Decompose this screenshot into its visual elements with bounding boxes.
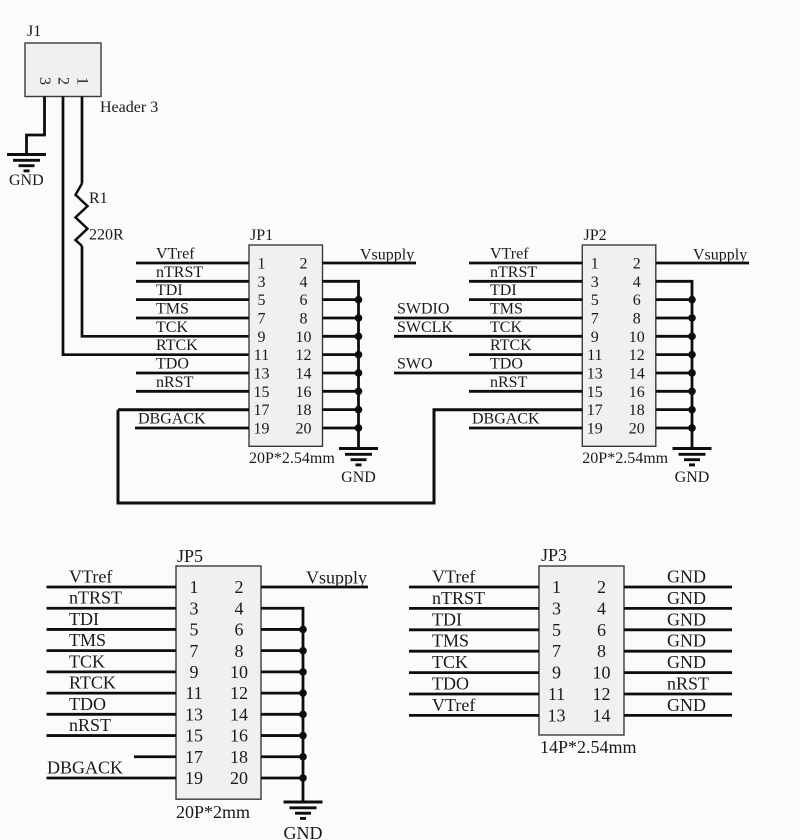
ground bus of JP1 <box>339 449 378 465</box>
svg-text:1: 1 <box>190 577 199 597</box>
svg-text:Header 3: Header 3 <box>100 99 158 116</box>
svg-text:19: 19 <box>587 420 603 437</box>
wire VTref to JP1 pin 1 <box>136 262 249 265</box>
svg-text:15: 15 <box>587 384 603 401</box>
svg-text:RTCK: RTCK <box>156 337 198 354</box>
wire JP1 pin 8 to ground bus <box>323 317 359 320</box>
wire JP5 pin 6 to ground bus <box>261 628 303 631</box>
pin numbers of JP1 <box>254 255 312 437</box>
svg-text:Vsupply: Vsupply <box>306 568 367 588</box>
wire RTCK to JP2 pin 11 <box>469 353 582 356</box>
junction at JP2 pin 12 bus <box>688 351 696 359</box>
junction at JP1 pin 14 bus <box>355 369 363 377</box>
svg-text:JP1: JP1 <box>250 227 273 244</box>
svg-text:J1: J1 <box>27 23 41 40</box>
svg-text:14: 14 <box>629 365 645 382</box>
wire pin 17 to JP5 pin 17 <box>134 755 176 758</box>
svg-text:TDO: TDO <box>432 674 469 694</box>
wire JP3 pin 12 to nRST <box>624 693 732 696</box>
pin numbers of JP5 <box>185 577 248 788</box>
connector JP2 <box>582 245 656 446</box>
svg-text:3: 3 <box>36 77 53 85</box>
svg-text:11: 11 <box>185 683 202 703</box>
svg-text:220R: 220R <box>89 227 124 244</box>
svg-text:nRST: nRST <box>490 374 528 391</box>
svg-text:4: 4 <box>235 598 244 618</box>
resistor R1 <box>76 184 88 247</box>
svg-text:13: 13 <box>254 365 270 382</box>
svg-text:5: 5 <box>552 620 561 640</box>
wire JP2 pin 6 to ground bus <box>656 298 692 301</box>
svg-text:3: 3 <box>552 598 561 618</box>
svg-text:5: 5 <box>258 292 266 309</box>
svg-text:10: 10 <box>629 329 645 346</box>
svg-text:5: 5 <box>190 620 199 640</box>
wire JP5 pin 16 to ground bus <box>261 734 303 737</box>
svg-text:17: 17 <box>254 402 270 419</box>
svg-text:6: 6 <box>235 620 244 640</box>
wire JP3 pin 6 to GND <box>624 628 732 631</box>
wire nRST to JP1 pin 15 <box>136 390 249 393</box>
svg-text:8: 8 <box>235 641 244 661</box>
wire nRST to JP2 pin 15 <box>469 390 582 393</box>
wire JP2 pin 14 to ground bus <box>656 372 692 375</box>
wire JP1 pin 17 stub <box>118 408 249 411</box>
junction at JP2 pin 10 bus <box>688 333 696 341</box>
wire JP5 pin 8 to ground bus <box>261 649 303 652</box>
svg-text:4: 4 <box>300 274 308 291</box>
junction at JP5 pin 12 bus <box>299 689 307 697</box>
junction at JP1 pin 18 bus <box>355 406 363 414</box>
wire TMS to JP3 pin 7 <box>409 650 539 653</box>
svg-text:1: 1 <box>552 577 561 597</box>
svg-text:SWDIO: SWDIO <box>397 301 449 318</box>
wire JP5 pin 4 to ground bus <box>261 608 303 801</box>
wire TCK to JP2 pin 9 <box>394 335 582 338</box>
wire VTref to JP2 pin 1 <box>469 262 582 265</box>
wire Vsupply from JP2 pin 2 <box>656 262 749 265</box>
svg-text:7: 7 <box>552 641 561 661</box>
svg-text:19: 19 <box>185 768 203 788</box>
pin numbers of JP3 <box>548 577 611 725</box>
svg-text:7: 7 <box>258 310 266 327</box>
svg-text:VTref: VTref <box>432 695 475 715</box>
wire TDO to JP3 pin 11 <box>409 693 539 696</box>
wire JP2 pin 16 to ground bus <box>656 390 692 393</box>
junction at JP2 pin 18 bus <box>688 406 696 414</box>
wire TMS to JP2 pin 7 <box>394 317 582 320</box>
wire JP3 pin 10 to GND <box>624 671 732 674</box>
wire JP5 pin 18 to ground bus <box>261 755 303 758</box>
svg-text:TDI: TDI <box>490 282 517 299</box>
svg-text:2: 2 <box>300 255 308 272</box>
wire JP2 pin 12 to ground bus <box>656 353 692 356</box>
svg-text:13: 13 <box>548 705 566 725</box>
svg-text:8: 8 <box>597 641 606 661</box>
svg-text:TMS: TMS <box>432 631 469 651</box>
wire JP1 pin 14 to ground bus <box>323 372 359 375</box>
svg-text:GND: GND <box>667 588 706 608</box>
svg-text:2: 2 <box>633 255 641 272</box>
wire TCK to JP5 pin 9 <box>47 670 177 673</box>
wire TMS to JP5 pin 7 <box>47 649 177 652</box>
connector JP5 <box>176 566 261 799</box>
svg-text:TDO: TDO <box>490 355 523 372</box>
ground below J1 pin 3 <box>7 155 46 171</box>
svg-text:3: 3 <box>258 274 266 291</box>
wire JP1 pin 20 to ground bus <box>323 427 359 430</box>
wire JP5 pin 20 to ground bus <box>261 777 303 780</box>
svg-text:DBGACK: DBGACK <box>138 410 206 427</box>
svg-text:nRST: nRST <box>69 715 111 735</box>
connector J1 (Header 3) <box>25 43 101 97</box>
svg-text:VTref: VTref <box>432 567 475 587</box>
svg-text:13: 13 <box>587 365 603 382</box>
svg-text:18: 18 <box>296 402 312 419</box>
svg-text:VTref: VTref <box>490 246 529 263</box>
wire R1 to JP1 TCK (pin 9) <box>82 246 249 336</box>
junction at JP1 pin 10 bus <box>355 333 363 341</box>
svg-text:18: 18 <box>629 402 645 419</box>
svg-text:1: 1 <box>74 77 91 85</box>
svg-text:9: 9 <box>591 329 599 346</box>
svg-text:4: 4 <box>597 598 606 618</box>
svg-text:14P*2.54mm: 14P*2.54mm <box>540 737 637 757</box>
svg-text:R1: R1 <box>89 190 108 207</box>
junction at JP2 pin 6 bus <box>688 296 696 304</box>
svg-text:17: 17 <box>185 747 203 767</box>
svg-text:8: 8 <box>300 310 308 327</box>
svg-text:2: 2 <box>55 77 72 85</box>
svg-text:20: 20 <box>230 768 248 788</box>
junction at JP5 pin 16 bus <box>299 732 307 740</box>
svg-text:DBGACK: DBGACK <box>47 757 123 777</box>
svg-text:12: 12 <box>296 347 312 364</box>
wire TDO to JP5 pin 13 <box>47 713 177 716</box>
wire nTRST to JP3 pin 3 <box>409 607 539 610</box>
svg-text:12: 12 <box>629 347 645 364</box>
wire nTRST to JP5 pin 3 <box>47 607 177 610</box>
svg-text:GND: GND <box>675 469 710 486</box>
junction at JP5 pin 14 bus <box>299 711 307 719</box>
svg-text:JP2: JP2 <box>584 227 607 244</box>
wire TCK to JP3 pin 9 <box>409 671 539 674</box>
svg-text:GND: GND <box>9 172 44 189</box>
wire TDI to JP2 pin 5 <box>469 298 582 301</box>
connector JP3 <box>539 566 624 735</box>
svg-text:VTref: VTref <box>156 246 195 263</box>
svg-text:1: 1 <box>258 255 266 272</box>
junction at JP1 pin 6 bus <box>355 296 363 304</box>
svg-text:3: 3 <box>591 274 599 291</box>
junction at JP2 pin 16 bus <box>688 388 696 396</box>
svg-text:TDO: TDO <box>156 355 189 372</box>
wire TDO to JP1 pin 13 <box>136 372 249 375</box>
wire JP3 pin 8 to GND <box>624 650 732 653</box>
svg-text:TCK: TCK <box>490 319 522 336</box>
svg-text:11: 11 <box>254 347 269 364</box>
wire nRST to JP5 pin 15 <box>47 734 177 737</box>
svg-text:nTRST: nTRST <box>490 264 537 281</box>
svg-text:GND: GND <box>667 652 706 672</box>
wire JP1 pin 6 to ground bus <box>323 298 359 301</box>
svg-text:16: 16 <box>230 726 248 746</box>
wire RTCK to JP5 pin 11 <box>47 692 177 695</box>
wire JP5 pin 14 to ground bus <box>261 713 303 716</box>
wire JP1 pin 12 to ground bus <box>323 353 359 356</box>
wire DBGACK to JP2 pin 19 <box>469 427 582 430</box>
svg-text:12: 12 <box>593 684 611 704</box>
svg-text:14: 14 <box>296 365 312 382</box>
junction at JP5 pin 6 bus <box>299 626 307 634</box>
svg-text:11: 11 <box>587 347 602 364</box>
svg-text:JP3: JP3 <box>541 545 567 565</box>
svg-text:TDO: TDO <box>69 694 106 714</box>
junction at JP1 pin 16 bus <box>355 388 363 396</box>
wire JP1 pin 18 to ground bus <box>323 408 359 411</box>
svg-text:SWO: SWO <box>397 356 433 373</box>
wire JP3 pin 14 to GND <box>624 714 732 717</box>
svg-text:TCK: TCK <box>69 651 105 671</box>
svg-text:TMS: TMS <box>490 300 523 317</box>
wire DBGACK loop JP1 pin 17 to JP2 pin 17 <box>118 410 582 503</box>
svg-text:GND: GND <box>667 567 706 587</box>
svg-text:15: 15 <box>185 726 203 746</box>
svg-text:DBGACK: DBGACK <box>472 410 540 427</box>
svg-text:GND: GND <box>667 609 706 629</box>
junction at JP2 pin 14 bus <box>688 369 696 377</box>
svg-text:Vsupply: Vsupply <box>360 247 414 264</box>
svg-text:GND: GND <box>667 631 706 651</box>
svg-text:nTRST: nTRST <box>156 264 203 281</box>
wire nTRST to JP1 pin 3 <box>136 280 249 283</box>
svg-text:7: 7 <box>190 641 199 661</box>
svg-text:20: 20 <box>296 420 312 437</box>
wire DBGACK to JP5 pin 19 <box>47 777 177 780</box>
wire JP2 pin 20 to ground bus <box>656 427 692 430</box>
junction at JP1 pin 8 bus <box>355 314 363 322</box>
svg-text:2: 2 <box>597 577 606 597</box>
junction at JP2 pin 8 bus <box>688 314 696 322</box>
svg-text:4: 4 <box>633 274 641 291</box>
wire TDI to JP3 pin 5 <box>409 628 539 631</box>
wire TDI to JP1 pin 5 <box>136 298 249 301</box>
svg-text:GND: GND <box>341 469 376 486</box>
junction at JP5 pin 8 bus <box>299 647 307 655</box>
svg-text:9: 9 <box>190 662 199 682</box>
svg-text:SWCLK: SWCLK <box>397 319 453 336</box>
svg-text:20P*2mm: 20P*2mm <box>176 802 250 822</box>
svg-text:13: 13 <box>185 704 203 724</box>
wire J1 pin 3 to ground <box>27 97 45 154</box>
wire DBGACK to JP1 pin 19 <box>135 427 249 430</box>
svg-text:Vsupply: Vsupply <box>693 247 747 264</box>
svg-text:GND: GND <box>667 695 706 715</box>
svg-text:RTCK: RTCK <box>490 337 532 354</box>
wire JP3 pin 4 to GND <box>624 607 732 610</box>
svg-text:9: 9 <box>552 663 561 683</box>
svg-text:TCK: TCK <box>432 652 468 672</box>
wire JP2 pin 4 to ground bus <box>656 281 692 447</box>
wire JP2 pin 8 to ground bus <box>656 317 692 320</box>
svg-text:GND: GND <box>284 823 323 840</box>
svg-text:TCK: TCK <box>156 319 188 336</box>
wire VTref to JP3 pin 1 <box>409 586 539 589</box>
wire JP1 pin 16 to ground bus <box>323 390 359 393</box>
svg-text:7: 7 <box>591 310 599 327</box>
svg-text:TMS: TMS <box>69 630 106 650</box>
ground bus of JP5 <box>284 802 323 818</box>
wire JP2 pin 18 to ground bus <box>656 408 692 411</box>
connector JP1 <box>249 245 323 446</box>
svg-text:10: 10 <box>230 662 248 682</box>
svg-text:12: 12 <box>230 683 248 703</box>
svg-text:TDI: TDI <box>69 609 99 629</box>
svg-text:20P*2.54mm: 20P*2.54mm <box>249 450 335 467</box>
svg-text:RTCK: RTCK <box>69 673 116 693</box>
wire JP1 pin 4 to ground bus <box>323 281 359 447</box>
wire nTRST to JP2 pin 3 <box>469 280 582 283</box>
svg-text:3: 3 <box>190 598 199 618</box>
svg-text:18: 18 <box>230 747 248 767</box>
wire TDI to JP5 pin 5 <box>47 628 177 631</box>
wire J1 pin 1 down to resistor R1 <box>81 97 84 184</box>
svg-text:19: 19 <box>254 420 270 437</box>
svg-text:6: 6 <box>633 292 641 309</box>
svg-text:11: 11 <box>548 684 565 704</box>
svg-text:16: 16 <box>296 384 312 401</box>
junction at JP1 pin 12 bus <box>355 351 363 359</box>
junction at JP2 pin 20 bus <box>688 424 696 432</box>
svg-text:9: 9 <box>258 329 266 346</box>
svg-text:TDI: TDI <box>432 609 462 629</box>
svg-text:VTref: VTref <box>69 567 112 587</box>
ground bus of JP2 <box>673 449 712 465</box>
svg-text:15: 15 <box>254 384 270 401</box>
svg-text:20P*2.54mm: 20P*2.54mm <box>582 450 668 467</box>
svg-text:nTRST: nTRST <box>432 588 485 608</box>
svg-text:nTRST: nTRST <box>69 588 122 608</box>
svg-text:1: 1 <box>591 255 599 272</box>
svg-text:17: 17 <box>587 402 603 419</box>
svg-text:TDI: TDI <box>156 282 183 299</box>
svg-text:14: 14 <box>593 705 611 725</box>
svg-text:14: 14 <box>230 704 248 724</box>
wire J1 pin 2 to JP1 RTCK (pin 11) <box>63 97 249 355</box>
svg-text:6: 6 <box>597 620 606 640</box>
junction at JP5 pin 18 bus <box>299 753 307 761</box>
wire JP3 pin 2 to GND <box>624 586 732 589</box>
svg-text:10: 10 <box>593 663 611 683</box>
wire VTref to JP3 pin 13 <box>409 714 539 717</box>
svg-text:2: 2 <box>235 577 244 597</box>
wire TMS to JP1 pin 7 <box>136 317 249 320</box>
svg-text:10: 10 <box>296 329 312 346</box>
wire Vsupply from JP5 pin 2 <box>261 586 368 589</box>
svg-text:8: 8 <box>633 310 641 327</box>
wire VTref to JP5 pin 1 <box>47 586 177 589</box>
wire JP5 pin 10 to ground bus <box>261 670 303 673</box>
svg-text:6: 6 <box>300 292 308 309</box>
junction at JP1 pin 20 bus <box>355 424 363 432</box>
svg-text:5: 5 <box>591 292 599 309</box>
svg-text:JP5: JP5 <box>177 546 203 566</box>
wire TDO to JP2 pin 13 <box>394 372 582 375</box>
svg-text:TMS: TMS <box>156 300 189 317</box>
wire JP1 pin 10 to ground bus <box>323 335 359 338</box>
svg-text:nRST: nRST <box>156 374 194 391</box>
svg-text:20: 20 <box>629 420 645 437</box>
svg-text:16: 16 <box>629 384 645 401</box>
wire JP2 pin 10 to ground bus <box>656 335 692 338</box>
junction at JP5 pin 10 bus <box>299 668 307 676</box>
pin numbers of JP2 <box>587 255 645 437</box>
junction at JP5 pin 20 bus <box>299 774 307 782</box>
wire Vsupply from JP1 pin 2 <box>323 262 417 265</box>
svg-text:nRST: nRST <box>667 674 709 694</box>
wire JP5 pin 12 to ground bus <box>261 692 303 695</box>
